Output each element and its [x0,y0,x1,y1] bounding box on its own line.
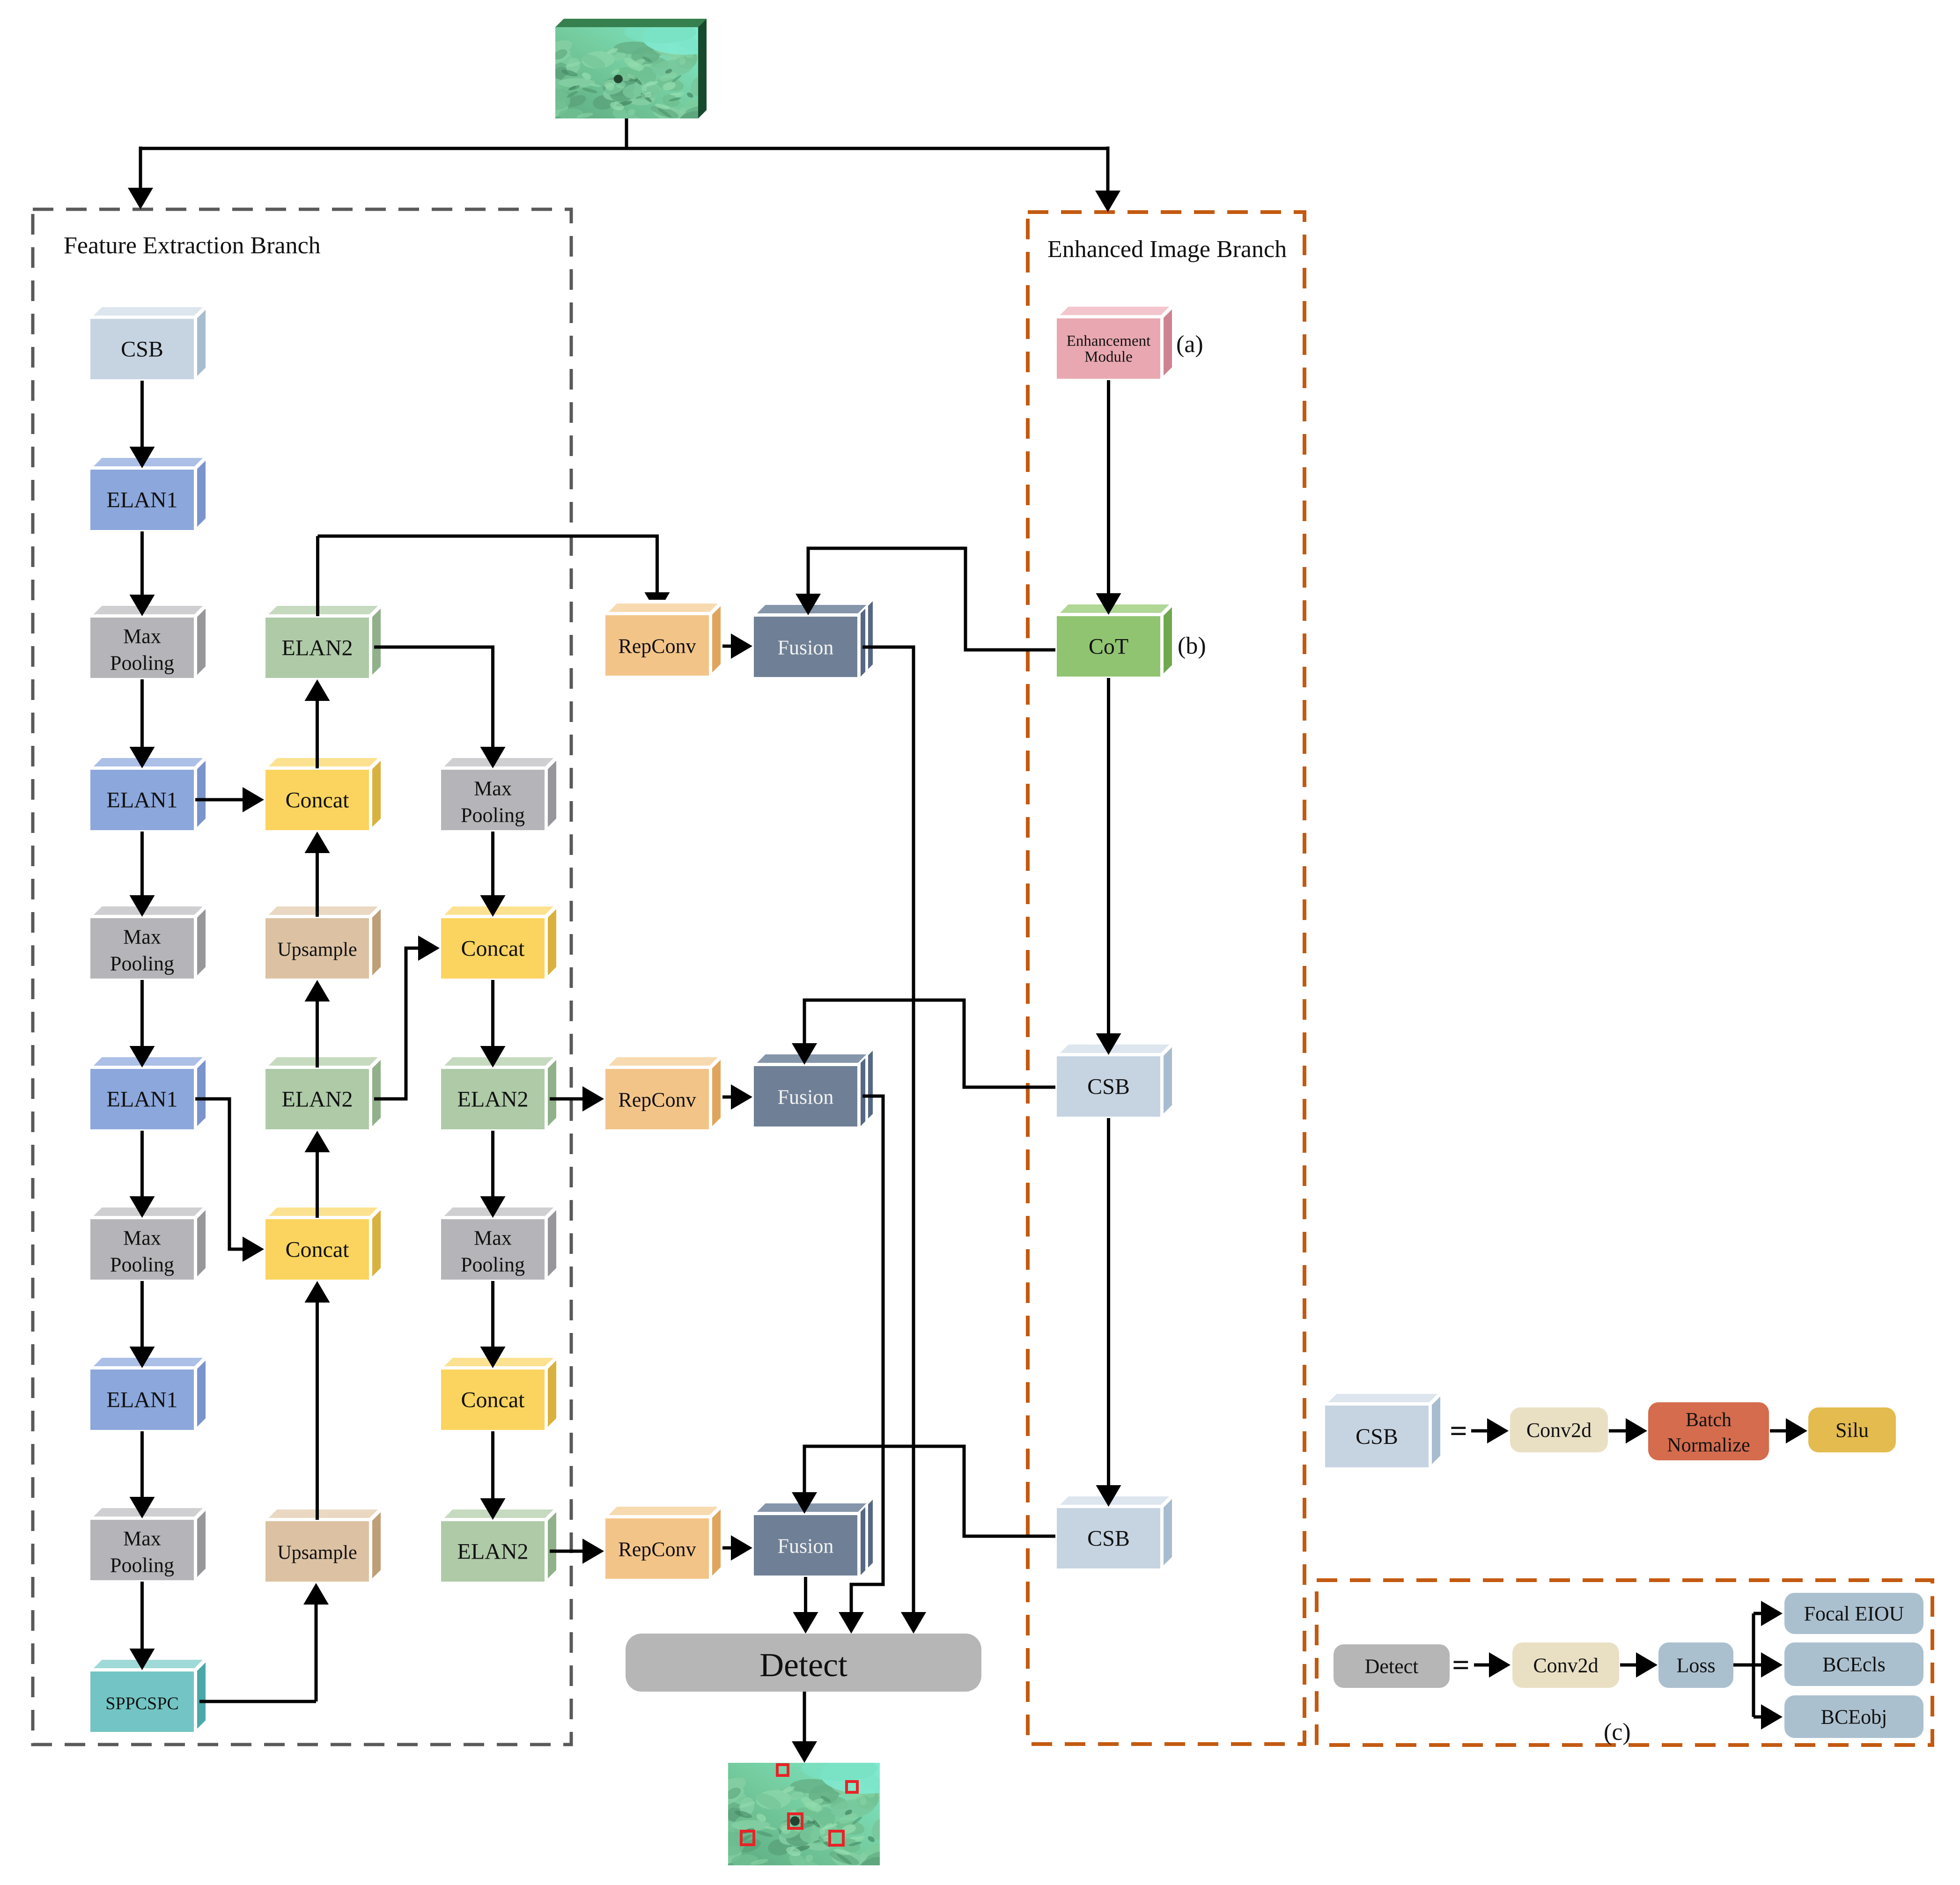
svg-text:CoT: CoT [1089,634,1128,659]
svg-text:ELAN1: ELAN1 [107,1087,178,1112]
svg-text:Normalize: Normalize [1667,1435,1750,1456]
svg-text:Max: Max [123,625,161,648]
svg-text:Max: Max [474,777,512,800]
svg-text:Pooling: Pooling [110,1554,174,1577]
svg-text:(a): (a) [1176,331,1203,358]
svg-text:Conv2d: Conv2d [1526,1419,1592,1442]
svg-text:Max: Max [123,1527,161,1550]
svg-text:BCEobj: BCEobj [1821,1706,1887,1729]
svg-text:Concat: Concat [461,1388,525,1413]
svg-text:Fusion: Fusion [778,636,834,659]
svg-text:Pooling: Pooling [110,652,174,675]
svg-text:CSB: CSB [121,337,163,362]
svg-text:ELAN2: ELAN2 [457,1087,529,1112]
svg-text:RepConv: RepConv [618,1538,696,1561]
svg-text:Upsample: Upsample [277,939,357,961]
svg-text:Enhancement: Enhancement [1067,333,1151,350]
svg-text:ELAN1: ELAN1 [107,488,178,513]
svg-text:Focal EIOU: Focal EIOU [1804,1602,1904,1625]
svg-text:ELAN1: ELAN1 [107,1388,178,1413]
svg-text:(b): (b) [1178,633,1206,659]
svg-text:SPPCSPC: SPPCSPC [105,1694,178,1714]
svg-text:BCEcls: BCEcls [1822,1653,1885,1676]
svg-text:Fusion: Fusion [778,1086,834,1109]
svg-text:=: = [1450,1414,1467,1448]
svg-text:Upsample: Upsample [277,1542,357,1564]
svg-text:Detect: Detect [759,1646,847,1684]
svg-text:Max: Max [474,1227,512,1250]
svg-text:Batch: Batch [1686,1409,1732,1431]
svg-text:ELAN2: ELAN2 [457,1539,529,1564]
svg-text:Enhanced Image Branch: Enhanced Image Branch [1047,236,1287,263]
svg-text:CSB: CSB [1356,1424,1398,1449]
svg-text:Feature Extraction Branch: Feature Extraction Branch [64,232,321,259]
svg-text:Pooling: Pooling [110,952,174,975]
svg-text:Pooling: Pooling [461,804,525,827]
svg-text:Concat: Concat [461,936,525,961]
svg-text:RepConv: RepConv [618,1089,696,1112]
svg-text:Concat: Concat [286,788,350,813]
svg-text:Max: Max [123,1227,161,1250]
svg-text:CSB: CSB [1087,1526,1130,1551]
svg-text:Module: Module [1084,349,1133,366]
svg-text:Fusion: Fusion [778,1535,834,1558]
svg-text:RepConv: RepConv [618,635,696,658]
svg-text:Concat: Concat [286,1237,350,1262]
svg-text:Pooling: Pooling [461,1253,525,1276]
svg-text:CSB: CSB [1087,1075,1130,1099]
svg-text:ELAN2: ELAN2 [282,1087,353,1112]
svg-text:Max: Max [123,926,161,949]
svg-text:Detect: Detect [1365,1655,1419,1678]
svg-text:ELAN1: ELAN1 [107,788,178,813]
svg-text:Silu: Silu [1835,1419,1869,1442]
svg-text:(c): (c) [1604,1719,1631,1745]
svg-text:Loss: Loss [1676,1654,1715,1677]
svg-text:Pooling: Pooling [110,1253,174,1276]
svg-text:ELAN2: ELAN2 [282,636,353,661]
svg-text:Conv2d: Conv2d [1533,1654,1598,1677]
svg-text:=: = [1452,1648,1470,1682]
